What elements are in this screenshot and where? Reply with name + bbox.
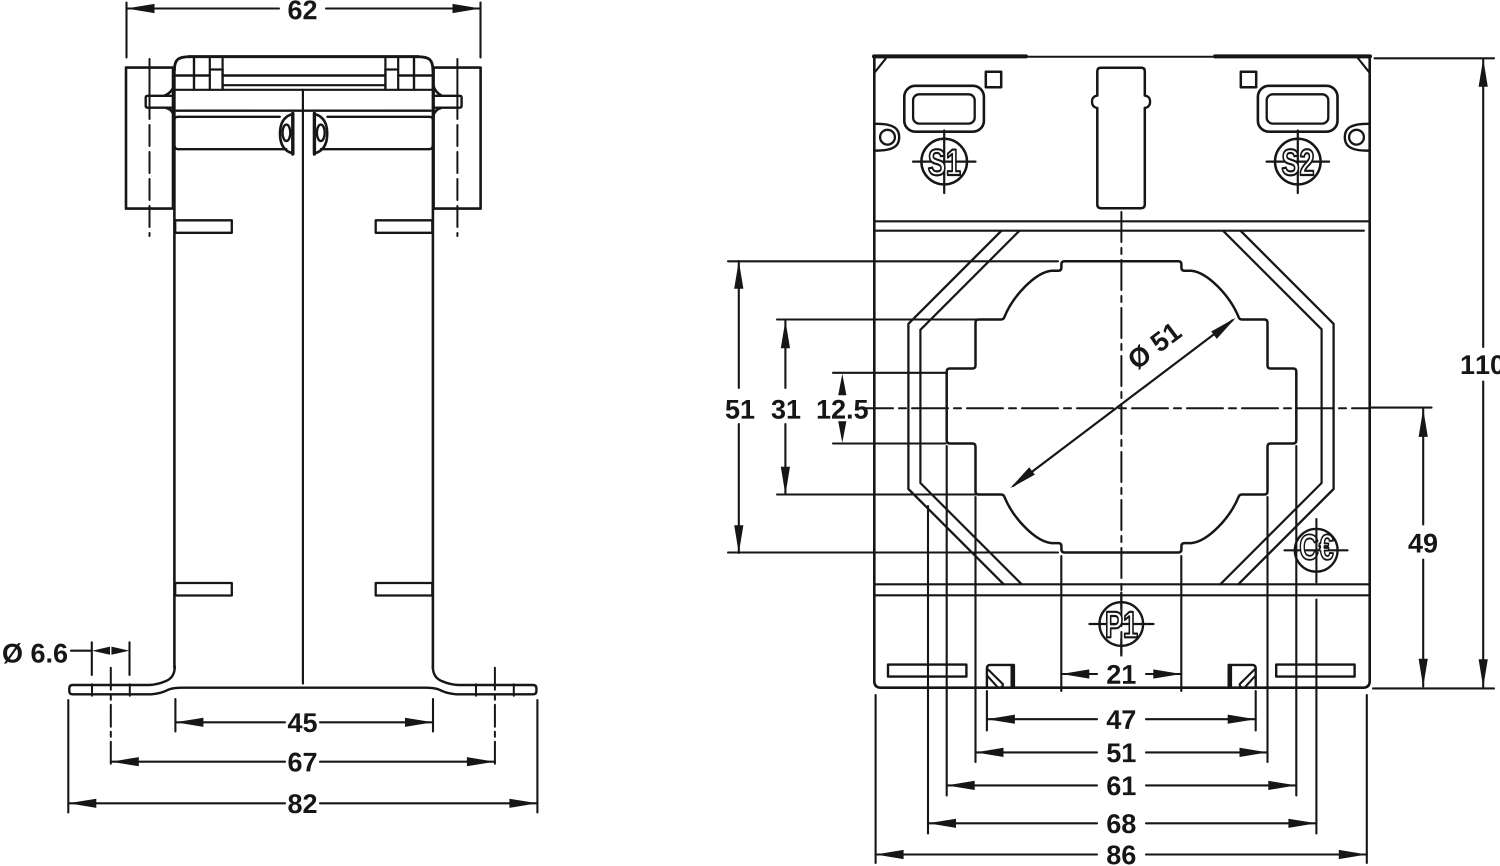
bottom right slot bbox=[1276, 665, 1354, 677]
left dim extension: step top bbox=[777, 318, 1002, 320]
core boss chamfer left bbox=[920, 231, 1021, 584]
band top edge bbox=[178, 116, 428, 118]
left clip notch bbox=[987, 665, 1014, 688]
top-left corner chamfer bbox=[875, 59, 886, 73]
P1 crosshair bbox=[1090, 593, 1154, 656]
dimension 47 text bbox=[1107, 710, 1121, 729]
right clip notch bbox=[1229, 665, 1256, 688]
dimension 67 line bbox=[111, 761, 495, 763]
bottom right extension line bbox=[1373, 687, 1494, 689]
S2 terminal window outer bbox=[1258, 86, 1338, 132]
dimension 67 arrows bbox=[111, 757, 495, 766]
window opening bbox=[947, 261, 1297, 552]
dimension 12.5 arrows bbox=[838, 374, 846, 443]
S1 terminal window inner bbox=[913, 94, 975, 123]
right latch slot bbox=[385, 57, 398, 90]
dimension 51 vertical arrows bbox=[734, 261, 743, 554]
dimension 51 bottom text bbox=[1107, 744, 1120, 763]
S1 screw crosshair bbox=[913, 131, 976, 194]
dimension 110 line bbox=[1482, 59, 1484, 687]
dimension 31 line bbox=[784, 321, 786, 495]
lower left core slot bbox=[175, 583, 232, 596]
body left edge bbox=[173, 68, 176, 668]
dimension 47 arrows bbox=[987, 715, 1256, 724]
dimension 31 arrows bbox=[781, 320, 790, 495]
left dim extension: bulge top bbox=[833, 372, 946, 374]
cover inner line upper bbox=[223, 84, 386, 86]
dimension 51 bottom extension lines bbox=[976, 497, 1268, 762]
horizontal centerline bbox=[857, 407, 1369, 409]
right seal ear hole bbox=[1349, 130, 1364, 145]
left screw boss arc upper bbox=[165, 84, 175, 96]
right block centerline bbox=[456, 59, 458, 236]
right clip notch thick edge bbox=[1228, 667, 1232, 688]
P1 label bbox=[1107, 612, 1122, 637]
dimension 82 extension lines bbox=[68, 700, 537, 813]
dimension 51 vertical text bbox=[726, 400, 739, 419]
S1 terminal window outer bbox=[904, 86, 984, 132]
lower band line 1 bbox=[874, 583, 1369, 585]
dimension 62 arrow left bbox=[127, 4, 155, 13]
dimension 110 text bbox=[1462, 355, 1475, 374]
dimension 51 bottom line bbox=[976, 751, 1268, 753]
lower right core slot bbox=[376, 583, 433, 596]
right side busbar block bbox=[434, 68, 481, 209]
lower band line 2 bbox=[874, 594, 1369, 596]
dimension 47 line bbox=[987, 718, 1256, 720]
dimension 62 line bbox=[127, 7, 481, 9]
S2 screw head bbox=[1275, 139, 1321, 185]
dimension 110 arrows bbox=[1479, 59, 1488, 688]
body right edge bbox=[432, 68, 435, 668]
left hole centerline bbox=[110, 668, 112, 767]
dimension 45 line bbox=[175, 721, 433, 723]
terminal cover top-right corner bbox=[417, 57, 433, 71]
dimension 62 extension line right bbox=[479, 3, 481, 58]
body top edge thick segments bbox=[874, 54, 1370, 58]
dimension 68 line bbox=[928, 822, 1316, 824]
P1 screw head bbox=[1100, 602, 1144, 646]
right foot hole edges bbox=[476, 684, 514, 696]
center split line bbox=[302, 90, 304, 684]
dimension 21 text bbox=[1107, 665, 1120, 684]
dia 6.6 extension ticks bbox=[92, 642, 130, 675]
body top edge thin middle bbox=[1026, 56, 1215, 58]
dimension 49 arrows bbox=[1419, 409, 1428, 687]
center mounting tab bbox=[1097, 68, 1145, 209]
dimension 61 line bbox=[947, 784, 1297, 786]
dimension 82 arrows bbox=[68, 799, 537, 808]
right clip eye bbox=[314, 114, 327, 153]
dia 6.6 arrow right bbox=[111, 647, 129, 655]
upper right core slot bbox=[376, 220, 433, 233]
right sealing square bbox=[1241, 72, 1256, 87]
dimension 21 line bbox=[1061, 673, 1181, 675]
dimension 68 arrows bbox=[928, 819, 1316, 828]
dimension 47 extension lines bbox=[987, 691, 1256, 731]
dimension 51 bottom arrows bbox=[976, 748, 1268, 757]
band top corners bbox=[174, 117, 433, 120]
cover top plate left end bbox=[193, 57, 195, 90]
dimension 49 text bbox=[1408, 534, 1422, 553]
dimension 67 text bbox=[288, 753, 301, 772]
dia 51 arrow upper bbox=[1211, 318, 1236, 339]
bottom left slot bbox=[888, 665, 966, 677]
dimension 86 extension lines bbox=[876, 695, 1367, 863]
dia 51 arrow lower bbox=[1010, 467, 1035, 488]
right clip flap bbox=[1240, 669, 1256, 688]
left clip eye bbox=[280, 114, 293, 153]
CE mark crosshair horizontal bbox=[1285, 549, 1348, 551]
terminal cover top-left corner bbox=[174, 57, 190, 71]
left block centerline bbox=[149, 59, 151, 236]
tab left ear bbox=[1092, 96, 1097, 109]
S2 label bbox=[1282, 149, 1298, 175]
left side busbar block bbox=[126, 68, 173, 209]
left seal ear hole bbox=[880, 130, 895, 145]
mounting foot outline bbox=[69, 667, 536, 695]
dimension 82 text bbox=[288, 794, 301, 813]
left dim extension: window top bbox=[728, 260, 1058, 262]
dia 51 dimension line bbox=[1014, 320, 1233, 486]
dimension 62 text bbox=[288, 0, 301, 19]
dimension 45 arrows bbox=[175, 718, 433, 727]
centerline extension right bbox=[1371, 407, 1432, 409]
dimension 110 extension top bbox=[1375, 57, 1495, 59]
terminal cover top edge bbox=[189, 55, 418, 58]
dimension 68 extension lines bbox=[928, 506, 1316, 834]
dimension 68 text bbox=[1107, 814, 1120, 833]
left sealing square bbox=[986, 72, 1001, 87]
left latch slot bbox=[210, 57, 223, 90]
left clip flap bbox=[987, 669, 1003, 688]
dimension 82 line bbox=[68, 802, 537, 804]
core boss octagon outer right bbox=[1238, 231, 1333, 584]
dimension 86 text bbox=[1107, 845, 1120, 864]
right hole centerline bbox=[494, 668, 496, 767]
dia 6.6 text bbox=[3, 643, 22, 663]
vertical centerline bbox=[1120, 212, 1122, 655]
left clip notch thick edge bbox=[1011, 667, 1015, 688]
dimension 86 line bbox=[876, 853, 1367, 855]
right seal ear bbox=[1345, 124, 1370, 151]
upper left core slot bbox=[175, 220, 232, 233]
S2 screw crosshair bbox=[1267, 131, 1330, 194]
left dim extension: window bottom bbox=[728, 551, 1058, 553]
dia 6.6 leader line bbox=[71, 650, 92, 652]
S2 terminal window inner bbox=[1267, 94, 1329, 123]
S1 screw head bbox=[921, 139, 967, 185]
upper band line 2 bbox=[874, 230, 1363, 232]
dimension 49 line bbox=[1422, 409, 1424, 687]
top-right corner chamfer bbox=[1358, 59, 1369, 73]
cover top plate right end bbox=[413, 57, 415, 90]
left screw boss arc lower bbox=[166, 108, 174, 117]
dimension 31 text bbox=[772, 400, 785, 419]
dimension 12.5 text bbox=[818, 400, 831, 419]
dia 51 text bbox=[1126, 343, 1153, 371]
S1 label bbox=[929, 149, 945, 175]
tab right ear bbox=[1145, 96, 1150, 109]
cover bottom edge bbox=[177, 110, 431, 112]
dimension 86 arrows bbox=[876, 850, 1367, 859]
dimension 45 extension lines bbox=[175, 699, 433, 732]
body outline with rounded bottom corners bbox=[874, 58, 1369, 688]
dimension 61 extension lines bbox=[947, 446, 1297, 796]
cover bottom line bbox=[174, 89, 433, 91]
core boss chamfer right bbox=[1220, 231, 1321, 584]
dia 6.6 arrow left bbox=[92, 647, 110, 655]
dimension 45 text bbox=[288, 713, 302, 732]
cover top plate bottom line bbox=[176, 74, 432, 76]
dimension 51 vertical line bbox=[738, 261, 740, 553]
left clamp tab bbox=[146, 96, 175, 108]
dimension 61 arrows bbox=[947, 781, 1297, 790]
right screw boss arc lower bbox=[433, 108, 441, 117]
left latch leg bbox=[221, 70, 223, 90]
band bottom edge bbox=[178, 148, 428, 150]
CE mark circle bbox=[1295, 529, 1338, 572]
right clamp tab bbox=[433, 96, 462, 108]
right screw boss arc upper bbox=[433, 84, 442, 96]
left dim extension: bulge bottom bbox=[833, 442, 946, 444]
left dim extension: step bottom bbox=[777, 493, 1002, 495]
dimension 62 arrow right bbox=[453, 4, 481, 13]
CE mark letters bbox=[1300, 534, 1318, 559]
right latch leg bbox=[384, 70, 386, 90]
core boss octagon outer left bbox=[908, 231, 1003, 584]
band bottom corners bbox=[174, 145, 433, 150]
dimension 21 extension lines bbox=[1061, 556, 1181, 691]
left seal ear bbox=[875, 124, 900, 151]
left foot hole edges bbox=[92, 684, 130, 696]
dimension 61 text bbox=[1107, 776, 1120, 795]
dimension 62 extension line left bbox=[125, 3, 127, 58]
dimension 21 arrows bbox=[1061, 669, 1181, 678]
upper band line 1 bbox=[874, 220, 1369, 222]
